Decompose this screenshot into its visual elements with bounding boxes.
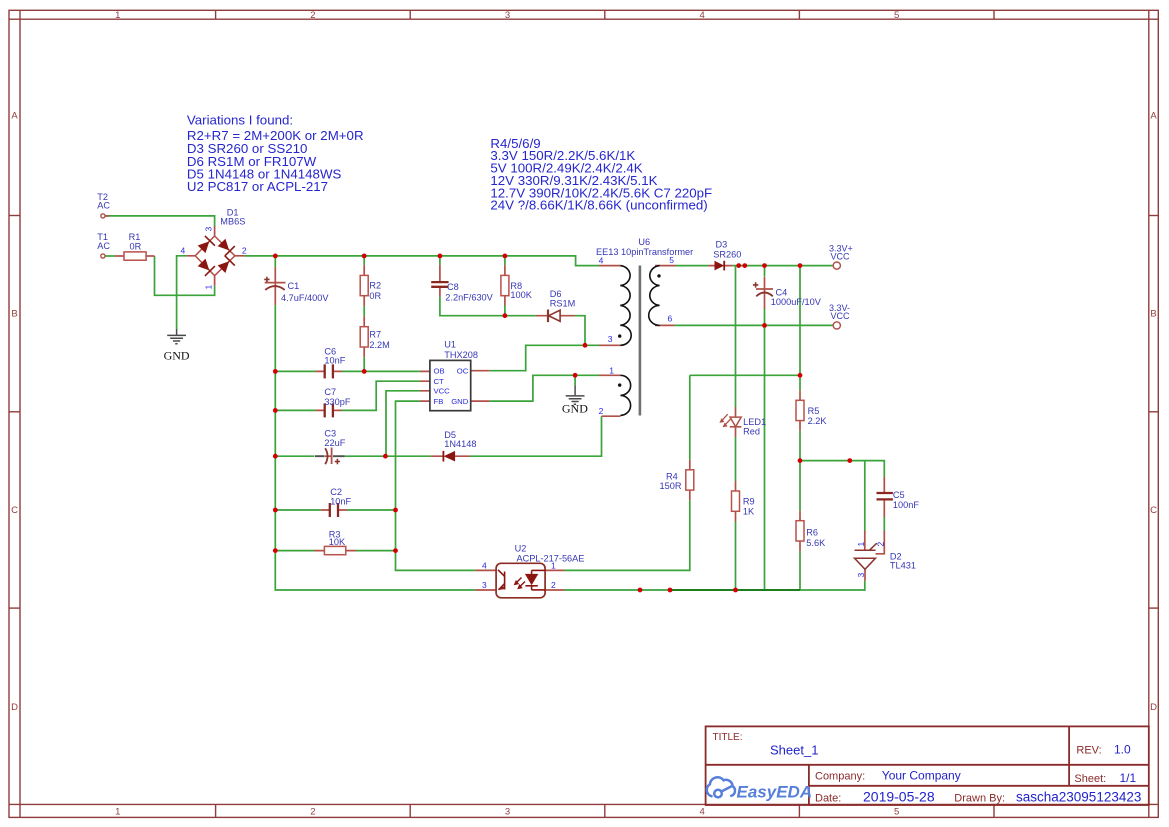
svg-text:3: 3 <box>505 807 510 818</box>
svg-text:GND: GND <box>451 397 469 406</box>
svg-text:D: D <box>11 702 18 713</box>
svg-text:C: C <box>1150 505 1157 516</box>
svg-text:VCC: VCC <box>831 311 851 321</box>
svg-text:150R: 150R <box>660 481 682 491</box>
svg-text:Sheet:: Sheet: <box>1074 773 1106 785</box>
svg-text:5: 5 <box>669 255 674 265</box>
svg-text:1: 1 <box>856 542 866 547</box>
svg-text:Red: Red <box>743 426 760 436</box>
svg-text:R5: R5 <box>808 406 820 416</box>
svg-text:3: 3 <box>608 334 613 344</box>
svg-text:0R: 0R <box>369 291 381 301</box>
svg-text:2.2nF/630V: 2.2nF/630V <box>445 292 493 302</box>
svg-text:1: 1 <box>115 807 120 818</box>
svg-text:1N4148: 1N4148 <box>444 439 476 449</box>
svg-text:2: 2 <box>242 245 247 255</box>
svg-text:sascha23095123423: sascha23095123423 <box>1016 790 1141 805</box>
svg-text:VCC: VCC <box>831 251 851 261</box>
svg-text:4: 4 <box>599 255 604 265</box>
svg-text:A: A <box>1150 110 1157 121</box>
svg-text:1000uF/10V: 1000uF/10V <box>771 297 822 307</box>
svg-text:1: 1 <box>609 366 614 376</box>
svg-text:EE13 10pinTransformer: EE13 10pinTransformer <box>596 247 693 257</box>
svg-text:TITLE:: TITLE: <box>713 732 743 743</box>
svg-text:GND: GND <box>164 349 190 363</box>
svg-text:U2: U2 <box>515 543 527 553</box>
svg-text:2019-05-28: 2019-05-28 <box>863 789 935 805</box>
svg-text:C4: C4 <box>776 287 788 297</box>
svg-text:EasyEDA: EasyEDA <box>737 782 813 801</box>
svg-text:10nF: 10nF <box>330 496 351 506</box>
svg-text:5: 5 <box>894 10 899 21</box>
svg-text:R6: R6 <box>806 528 818 538</box>
svg-text:1/1: 1/1 <box>1120 771 1137 785</box>
svg-text:4: 4 <box>482 560 487 570</box>
svg-text:CT: CT <box>434 377 445 386</box>
svg-text:AC: AC <box>97 241 110 251</box>
svg-text:2: 2 <box>551 580 556 590</box>
svg-text:THX208: THX208 <box>444 350 478 360</box>
svg-text:C: C <box>11 505 18 516</box>
svg-text:U6: U6 <box>638 237 650 247</box>
svg-text:3: 3 <box>204 227 214 232</box>
svg-text:1: 1 <box>551 560 556 570</box>
svg-text:A: A <box>11 110 18 121</box>
svg-text:1: 1 <box>115 10 120 21</box>
svg-text:2: 2 <box>310 10 315 21</box>
svg-text:2: 2 <box>876 542 886 547</box>
svg-text:OC: OC <box>457 367 469 376</box>
svg-text:B: B <box>11 308 17 319</box>
svg-text:C5: C5 <box>893 490 905 500</box>
svg-text:4: 4 <box>699 10 704 21</box>
svg-text:0R: 0R <box>130 241 142 251</box>
svg-text:Company:: Company: <box>815 771 865 783</box>
svg-text:6: 6 <box>668 313 673 323</box>
svg-text:3: 3 <box>505 10 510 21</box>
svg-text:TL431: TL431 <box>890 561 916 571</box>
svg-text:Variations I found:: Variations I found: <box>187 113 293 128</box>
svg-text:OB: OB <box>434 367 445 376</box>
svg-text:10nF: 10nF <box>324 356 345 366</box>
svg-text:4: 4 <box>181 246 186 256</box>
svg-text:U2 PC817 or ACPL-217: U2 PC817 or ACPL-217 <box>187 179 328 194</box>
svg-text:100K: 100K <box>510 290 532 300</box>
svg-text:5: 5 <box>894 807 899 818</box>
svg-text:RS1M: RS1M <box>550 298 576 308</box>
svg-text:2: 2 <box>310 807 315 818</box>
svg-text:Drawn By:: Drawn By: <box>954 793 1005 805</box>
svg-text:SR260: SR260 <box>713 249 741 259</box>
svg-text:B: B <box>1150 308 1156 319</box>
svg-text:4.7uF/400V: 4.7uF/400V <box>281 293 329 303</box>
svg-text:2: 2 <box>599 406 604 416</box>
svg-text:3: 3 <box>856 573 866 578</box>
svg-text:10K: 10K <box>329 537 346 547</box>
svg-text:C1: C1 <box>288 281 300 291</box>
svg-text:Your Company: Your Company <box>882 769 961 783</box>
svg-text:AC: AC <box>97 200 110 210</box>
svg-text:D: D <box>1150 702 1157 713</box>
svg-text:C8: C8 <box>447 282 459 292</box>
svg-text:R9: R9 <box>743 496 755 506</box>
svg-text:MB6S: MB6S <box>220 216 245 226</box>
svg-text:C7: C7 <box>324 387 336 397</box>
svg-text:5.6K: 5.6K <box>806 538 826 548</box>
svg-text:Sheet_1: Sheet_1 <box>770 743 818 758</box>
svg-text:2.2K: 2.2K <box>808 416 828 426</box>
svg-text:1: 1 <box>204 285 214 290</box>
svg-text:3: 3 <box>482 580 487 590</box>
svg-text:24V ?/8.66K/1K/8.66K (unconfir: 24V ?/8.66K/1K/8.66K (unconfirmed) <box>490 198 707 213</box>
svg-text:100nF: 100nF <box>893 500 919 510</box>
svg-text:4: 4 <box>699 807 704 818</box>
svg-text:FB: FB <box>434 397 444 406</box>
svg-text:D3: D3 <box>716 240 728 250</box>
svg-text:1.0: 1.0 <box>1114 743 1131 757</box>
svg-text:Date:: Date: <box>815 793 841 805</box>
svg-text:1K: 1K <box>743 506 755 516</box>
svg-text:R2: R2 <box>369 281 381 291</box>
svg-text:VCC: VCC <box>434 387 451 396</box>
svg-text:REV:: REV: <box>1076 745 1101 757</box>
svg-text:R4: R4 <box>666 471 678 481</box>
svg-text:2.2M: 2.2M <box>369 340 389 350</box>
svg-text:GND: GND <box>562 402 588 416</box>
svg-text:R7: R7 <box>369 330 381 340</box>
svg-text:22uF: 22uF <box>324 438 345 448</box>
svg-text:330pF: 330pF <box>324 397 350 407</box>
svg-text:U1: U1 <box>444 340 456 350</box>
